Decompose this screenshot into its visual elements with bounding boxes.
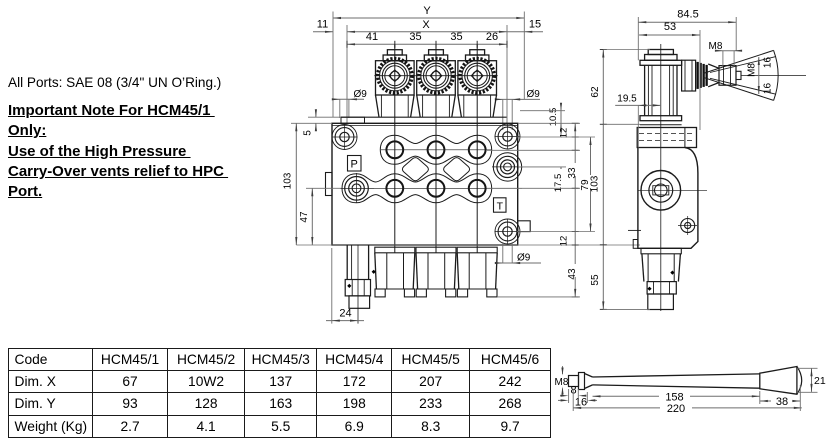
svg-text:X: X bbox=[422, 19, 430, 31]
svg-text:38: 38 bbox=[776, 396, 788, 408]
svg-text:11: 11 bbox=[317, 19, 328, 31]
svg-text:21: 21 bbox=[814, 375, 826, 387]
svg-text:103: 103 bbox=[590, 175, 601, 192]
svg-text:M8: M8 bbox=[555, 377, 569, 388]
svg-text:33: 33 bbox=[567, 167, 578, 179]
svg-text:55: 55 bbox=[590, 274, 601, 286]
svg-text:24: 24 bbox=[339, 308, 351, 320]
svg-text:41: 41 bbox=[366, 31, 378, 43]
svg-text:220: 220 bbox=[667, 403, 685, 415]
svg-text:16: 16 bbox=[762, 57, 773, 69]
svg-text:Ø9: Ø9 bbox=[527, 89, 541, 100]
svg-text:Y: Y bbox=[423, 5, 431, 17]
svg-text:5: 5 bbox=[303, 130, 314, 136]
svg-text:16: 16 bbox=[762, 83, 773, 95]
svg-text:15: 15 bbox=[529, 19, 541, 31]
svg-text:M8: M8 bbox=[747, 63, 758, 77]
svg-text:35: 35 bbox=[450, 31, 462, 43]
svg-text:P: P bbox=[351, 159, 358, 171]
svg-text:35: 35 bbox=[409, 31, 421, 43]
svg-text:Ø9: Ø9 bbox=[517, 253, 531, 264]
svg-text:19.5: 19.5 bbox=[617, 94, 637, 105]
svg-text:26: 26 bbox=[486, 31, 498, 43]
svg-text:62: 62 bbox=[590, 86, 601, 98]
svg-text:103: 103 bbox=[283, 172, 294, 189]
svg-text:Ø9: Ø9 bbox=[354, 89, 368, 100]
svg-text:17.5: 17.5 bbox=[553, 174, 564, 193]
svg-text:53: 53 bbox=[664, 21, 676, 33]
svg-text:84.5: 84.5 bbox=[677, 9, 698, 21]
svg-text:47: 47 bbox=[299, 211, 310, 223]
svg-text:158: 158 bbox=[665, 391, 683, 403]
svg-text:16: 16 bbox=[575, 397, 587, 409]
svg-text:12: 12 bbox=[559, 236, 570, 247]
svg-text:T: T bbox=[497, 200, 504, 212]
svg-text:43: 43 bbox=[567, 268, 578, 280]
